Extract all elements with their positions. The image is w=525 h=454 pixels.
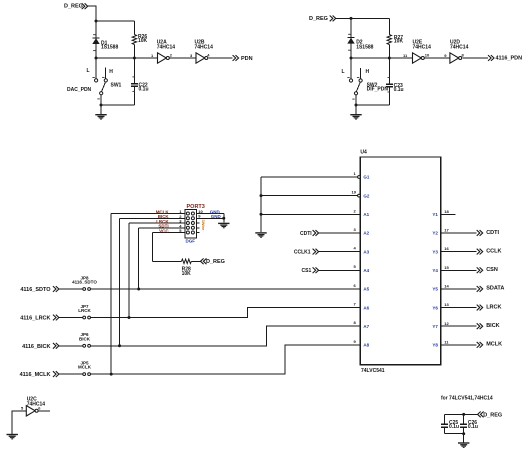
svg-text:4116_SDTO: 4116_SDTO (20, 287, 51, 293)
svg-text:74HC14: 74HC14 (413, 44, 432, 50)
svg-text:CSN: CSN (486, 267, 498, 273)
svg-text:2: 2 (170, 53, 173, 58)
svg-text:10K: 10K (182, 271, 192, 277)
svg-text:74HC14: 74HC14 (27, 402, 46, 408)
svg-text:74HC14: 74HC14 (450, 44, 469, 50)
svg-text:4116_BICK: 4116_BICK (22, 344, 50, 350)
svg-text:BICK: BICK (486, 323, 499, 329)
svg-text:A5: A5 (363, 287, 369, 292)
svg-text:SDATA: SDATA (486, 286, 504, 292)
svg-text:D_REG: D_REG (309, 16, 328, 22)
svg-text:4: 4 (354, 246, 357, 251)
svg-text:74LVC541: 74LVC541 (361, 368, 385, 374)
svg-text:DAC_PDN: DAC_PDN (67, 87, 92, 93)
svg-text:4116_PDN: 4116_PDN (496, 56, 523, 62)
svg-text:H: H (109, 69, 113, 75)
svg-text:MCLK: MCLK (78, 365, 92, 370)
svg-text:D_REG: D_REG (483, 412, 502, 418)
svg-text:CS1: CS1 (302, 268, 312, 274)
svg-text:CCLK1: CCLK1 (294, 249, 311, 255)
svg-text:4116_MCLK: 4116_MCLK (20, 372, 51, 378)
svg-text:DIF_PDN: DIF_PDN (367, 87, 389, 93)
svg-text:10K: 10K (394, 39, 404, 45)
svg-text:12: 12 (444, 321, 449, 326)
svg-text:H: H (366, 69, 370, 75)
svg-text:Y7: Y7 (432, 324, 438, 329)
svg-text:A4: A4 (363, 268, 369, 273)
svg-text:11: 11 (444, 339, 449, 344)
svg-text:Y6: Y6 (432, 305, 438, 310)
svg-text:4: 4 (207, 53, 210, 58)
svg-text:3: 3 (190, 53, 193, 58)
svg-text:G2: G2 (363, 193, 370, 198)
svg-text:Y5: Y5 (432, 287, 438, 292)
svg-text:DGF: DGF (186, 238, 196, 243)
svg-text:0.1u: 0.1u (468, 424, 478, 430)
svg-text:8: 8 (462, 53, 465, 58)
svg-text:LRCK: LRCK (78, 308, 91, 313)
svg-text:SW1: SW1 (111, 83, 122, 89)
svg-text:4116_SDTO: 4116_SDTO (72, 280, 97, 285)
svg-text:0.1u: 0.1u (139, 86, 149, 92)
svg-text:1S1588: 1S1588 (101, 45, 118, 51)
svg-text:BICK: BICK (79, 336, 91, 341)
svg-text:PDN: PDN (241, 56, 253, 62)
svg-text:A1: A1 (363, 212, 369, 217)
svg-text:7: 7 (354, 302, 357, 307)
svg-text:LRCK: LRCK (486, 304, 501, 310)
svg-text:D_REG: D_REG (64, 4, 83, 10)
svg-text:VCC: VCC (159, 228, 169, 233)
svg-text:9: 9 (354, 339, 357, 344)
svg-text:G1: G1 (363, 175, 370, 180)
svg-text:CCLK: CCLK (486, 248, 501, 254)
svg-text:0.1u: 0.1u (449, 424, 459, 430)
svg-text:10K: 10K (138, 38, 148, 44)
svg-text:15: 15 (444, 265, 449, 270)
svg-text:17: 17 (444, 228, 449, 233)
svg-text:1: 1 (354, 171, 357, 176)
svg-text:Y2: Y2 (432, 231, 438, 236)
svg-text:A3: A3 (363, 249, 369, 254)
svg-text:A8: A8 (363, 343, 369, 348)
svg-text:CDTI: CDTI (300, 231, 312, 237)
svg-text:Y8: Y8 (432, 343, 438, 348)
svg-text:11: 11 (403, 53, 408, 58)
svg-text:5: 5 (354, 264, 357, 269)
svg-text:5: 5 (21, 406, 24, 411)
svg-text:CDTI: CDTI (486, 230, 499, 236)
svg-text:2: 2 (354, 208, 357, 213)
svg-text:9: 9 (444, 53, 447, 58)
svg-text:Y3: Y3 (432, 249, 438, 254)
svg-text:16: 16 (444, 246, 449, 251)
svg-text:74HC14: 74HC14 (157, 44, 176, 50)
svg-text:Y1: Y1 (432, 212, 438, 217)
svg-text:0.1u: 0.1u (394, 87, 404, 93)
svg-text:14: 14 (444, 284, 449, 289)
svg-text:4116_LRCK: 4116_LRCK (20, 316, 50, 322)
svg-text:1: 1 (151, 53, 154, 58)
svg-text:13: 13 (444, 302, 449, 307)
svg-text:L: L (87, 68, 90, 74)
svg-text:74HC14: 74HC14 (195, 44, 214, 50)
svg-text:D_REG: D_REG (206, 259, 225, 265)
svg-text:8: 8 (354, 320, 357, 325)
svg-text:19: 19 (352, 190, 357, 195)
svg-text:3: 3 (354, 227, 357, 232)
svg-text:6: 6 (354, 283, 357, 288)
svg-text:A6: A6 (363, 305, 369, 310)
svg-text:10: 10 (425, 53, 430, 58)
svg-text:1S1588: 1S1588 (356, 45, 373, 51)
svg-text:Y4: Y4 (432, 268, 438, 273)
svg-text:A2: A2 (363, 231, 369, 236)
svg-text:3Wire: 3Wire (201, 220, 206, 232)
svg-text:MCLK: MCLK (486, 342, 502, 348)
svg-text:L: L (342, 69, 345, 75)
svg-text:for 74LCV541,74HC14: for 74LCV541,74HC14 (441, 395, 493, 401)
svg-text:A7: A7 (363, 324, 369, 329)
svg-text:18: 18 (444, 209, 449, 214)
svg-text:U4: U4 (360, 149, 367, 155)
svg-text:GND: GND (211, 214, 222, 219)
